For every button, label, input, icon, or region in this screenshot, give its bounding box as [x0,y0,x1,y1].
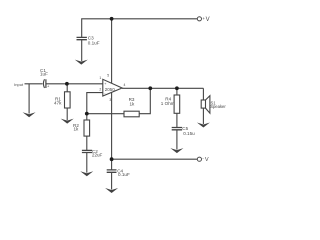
svg-text:5: 5 [107,73,109,77]
svg-text:4: 4 [124,83,126,87]
svg-text:1uF: 1uF [40,71,48,76]
svg-text:2050: 2050 [105,87,116,92]
svg-text:1: 1 [99,76,101,80]
svg-text:0.1uF: 0.1uF [118,172,130,177]
svg-text:V: V [206,17,210,23]
svg-text:0.1uF: 0.1uF [88,41,100,46]
svg-text:0.15u: 0.15u [183,131,195,136]
svg-text:3: 3 [109,98,111,102]
svg-text:22uF: 22uF [92,153,103,158]
svg-text:1k: 1k [130,102,136,107]
svg-text:Input: Input [14,82,24,87]
svg-text:2: 2 [99,88,101,92]
svg-text:V: V [205,157,209,163]
svg-text:1 Ohm: 1 Ohm [161,101,175,106]
svg-text:Speaker: Speaker [210,104,226,109]
svg-text:1k: 1k [74,127,80,132]
svg-text:47k: 47k [54,101,62,106]
